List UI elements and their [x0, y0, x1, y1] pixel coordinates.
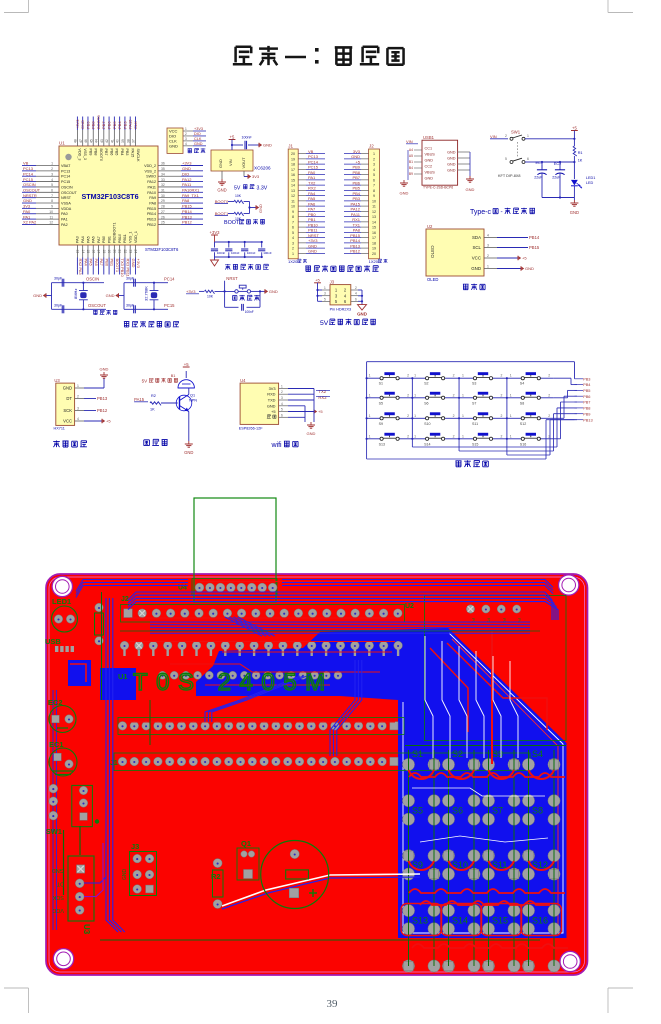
- svg-text:Type-c: Type-c: [470, 209, 492, 216]
- svg-text:S10: S10: [424, 422, 430, 426]
- svg-text:VDDA: VDDA: [61, 207, 72, 211]
- svg-text:B1: B1: [409, 160, 413, 164]
- svg-text:1: 1: [51, 162, 53, 166]
- svg-text:S12: S12: [520, 422, 526, 426]
- svg-text:1: 1: [414, 434, 416, 438]
- svg-text:5V: 5V: [234, 185, 241, 191]
- svg-text:8: 8: [292, 215, 294, 219]
- svg-text:14: 14: [291, 184, 295, 188]
- svg-text:BOOT0: BOOT0: [215, 199, 229, 204]
- svg-text:S4: S4: [532, 749, 543, 759]
- connector J1 1x20 header: [288, 144, 325, 265]
- svg-text:B9: B9: [409, 172, 413, 176]
- caption buzzer: [144, 440, 150, 446]
- svg-text:+3V3: +3V3: [75, 119, 80, 129]
- svg-text:PA12: PA12: [351, 207, 361, 212]
- svg-text:1: 1: [414, 374, 416, 378]
- svg-text:NRST: NRST: [61, 196, 72, 200]
- svg-text:1: 1: [462, 393, 464, 397]
- svg-text:14: 14: [81, 250, 85, 254]
- pcb LED1 component: [52, 597, 78, 632]
- svg-text:1K: 1K: [150, 407, 155, 411]
- svg-text:5: 5: [373, 173, 375, 177]
- svg-text:PB4: PB4: [583, 382, 591, 387]
- resistor R2 1K with PA15: [134, 394, 178, 412]
- pcb keypad green column lines: [405, 746, 566, 967]
- svg-text:S6: S6: [424, 401, 428, 405]
- svg-text:30: 30: [161, 194, 165, 198]
- svg-text:3: 3: [185, 137, 187, 141]
- svg-text:1: 1: [487, 265, 489, 269]
- svg-text:PB3: PB3: [352, 196, 360, 201]
- svg-text:USB1: USB1: [423, 135, 435, 140]
- svg-text:PB8: PB8: [352, 170, 360, 175]
- svg-text:17: 17: [97, 250, 101, 254]
- svg-text:48: 48: [74, 139, 78, 143]
- svg-text:3V3: 3V3: [353, 149, 361, 154]
- svg-text:PA15: PA15: [134, 397, 145, 402]
- svg-text:30pF: 30pF: [126, 277, 135, 281]
- svg-text:T0S 2405M: T0S 2405M: [133, 669, 334, 696]
- svg-text:PB15: PB15: [529, 245, 540, 250]
- svg-text:2: 2: [407, 414, 409, 418]
- svg-text:25: 25: [161, 221, 165, 225]
- svg-text:1: 1: [510, 374, 512, 378]
- pcb keypad switch pads grid: [402, 758, 560, 972]
- svg-text:S5: S5: [379, 401, 383, 405]
- svg-text:PA9: PA9: [149, 196, 156, 200]
- svg-text:41: 41: [110, 139, 114, 143]
- svg-text:+5: +5: [318, 409, 323, 414]
- svg-text:-: -: [501, 209, 503, 216]
- svg-text:PA1: PA1: [308, 175, 316, 180]
- svg-text:PA11: PA11: [351, 212, 361, 217]
- svg-text:PB3: PB3: [122, 121, 127, 129]
- svg-text:5: 5: [324, 297, 326, 301]
- svg-text:CLK: CLK: [133, 121, 138, 129]
- svg-text:P1: P1: [471, 618, 476, 624]
- svg-text:GND: GND: [122, 869, 128, 881]
- svg-text:+3V3: +3V3: [308, 238, 318, 243]
- svg-text:SCK: SCK: [52, 894, 64, 900]
- svg-text:VSS_1: VSS_1: [129, 232, 133, 243]
- svg-text:3.3V: 3.3V: [257, 185, 268, 191]
- svg-text:GND: GND: [33, 293, 42, 298]
- pcb blue traces along top edge: [76, 580, 553, 598]
- pcb board outline: [46, 574, 588, 975]
- svg-text:VCC: VCC: [52, 907, 64, 913]
- svg-text:J3: J3: [131, 842, 139, 851]
- svg-text:18: 18: [102, 250, 106, 254]
- svg-text:29: 29: [161, 199, 165, 203]
- svg-text:PA6: PA6: [92, 236, 96, 243]
- svg-text:20: 20: [372, 252, 376, 256]
- svg-text:GND: GND: [447, 150, 456, 154]
- svg-text:BOOT0: BOOT0: [96, 115, 101, 129]
- svg-text:+3V3: +3V3: [210, 230, 221, 235]
- svg-text:2: 2: [292, 247, 294, 251]
- svg-text:S14: S14: [452, 916, 468, 926]
- svg-text:42: 42: [105, 139, 109, 143]
- title text (appendix heading): [233, 46, 404, 65]
- svg-text:S7: S7: [472, 401, 476, 405]
- svg-text:HX711: HX711: [54, 427, 65, 431]
- svg-text:RX2: RX2: [308, 186, 317, 191]
- svg-text:BOOT: BOOT: [224, 220, 240, 226]
- svg-text:1: 1: [510, 434, 512, 438]
- svg-text:PB11: PB11: [123, 234, 127, 243]
- svg-text:PB4: PB4: [117, 121, 122, 129]
- svg-text:PB0: PB0: [308, 212, 316, 217]
- svg-text:S3: S3: [472, 382, 476, 386]
- svg-text:wifi: wifi: [271, 442, 283, 449]
- svg-text:+3V3: +3V3: [186, 289, 196, 294]
- svg-text:2: 2: [77, 395, 79, 399]
- pcb blue diagonal bundle: [205, 660, 362, 756]
- svg-text:U3: U3: [82, 924, 91, 935]
- pcb J2 pad row: [121, 596, 405, 622]
- svg-text:TX2: TX2: [308, 180, 316, 185]
- pcb pad row on pour: [159, 671, 343, 679]
- svg-text:PA9_TX1: PA9_TX1: [182, 193, 200, 198]
- svg-text:5: 5: [51, 183, 53, 187]
- svg-text:5V: 5V: [320, 320, 329, 327]
- svg-text:+5: +5: [106, 419, 111, 424]
- svg-text:GND: GND: [425, 158, 434, 162]
- svg-text:33: 33: [161, 178, 165, 182]
- svg-text:1X20: 1X20: [369, 259, 379, 264]
- svg-text:3: 3: [51, 172, 53, 176]
- svg-text:1: 1: [414, 414, 416, 418]
- pcb U2 keypad courtyard: [405, 596, 566, 741]
- svg-text:12: 12: [49, 221, 53, 225]
- svg-text:U4: U4: [240, 378, 246, 383]
- svg-text:+3V3: +3V3: [194, 127, 203, 131]
- svg-text:21: 21: [118, 250, 122, 254]
- svg-text:10: 10: [49, 210, 53, 214]
- svg-text:CLK: CLK: [194, 137, 202, 141]
- svg-text:PA1: PA1: [61, 218, 68, 222]
- svg-text:OSCIN: OSCIN: [61, 185, 73, 189]
- svg-text:7: 7: [373, 184, 375, 188]
- svg-text:VCC: VCC: [63, 419, 72, 424]
- buzzer B1 5V active: [142, 362, 195, 388]
- svg-text:PB13: PB13: [182, 214, 193, 219]
- svg-text:R1: R1: [578, 151, 583, 155]
- pcb long pad row fourth: [110, 753, 530, 771]
- svg-text:PA8: PA8: [182, 198, 190, 203]
- svg-text:NPN: NPN: [189, 399, 197, 403]
- svg-text:S9: S9: [379, 422, 383, 426]
- svg-text:PA12: PA12: [147, 180, 156, 184]
- pcb blue trace bundle left vertical: [106, 598, 125, 932]
- svg-text:2: 2: [548, 374, 550, 378]
- svg-text:GND: GND: [570, 210, 579, 215]
- svg-text:PB13: PB13: [97, 396, 108, 401]
- svg-text:GND: GND: [447, 162, 456, 166]
- svg-text:2: 2: [453, 393, 455, 397]
- svg-text:GND: GND: [169, 143, 178, 148]
- svg-text:2: 2: [505, 134, 507, 138]
- svg-text:TYPE-C-2SD-BCP6: TYPE-C-2SD-BCP6: [423, 186, 453, 190]
- svg-text:PB8: PB8: [583, 406, 590, 411]
- svg-text:PA8: PA8: [353, 228, 361, 233]
- svg-text:TXD: TXD: [268, 398, 276, 403]
- svg-text:+5: +5: [230, 134, 235, 139]
- regulator U5 XC6206 5V to 3.3V: [211, 134, 272, 192]
- svg-text:100nF: 100nF: [231, 251, 240, 255]
- svg-text:+5: +5: [572, 125, 577, 130]
- pcb capacitor EC1 footprint: [49, 740, 77, 776]
- svg-text:S6: S6: [452, 806, 463, 816]
- svg-text:16: 16: [291, 173, 295, 177]
- svg-text:PC14: PC14: [23, 171, 34, 176]
- svg-text:P4: P4: [517, 618, 522, 624]
- svg-text:2: 2: [51, 167, 53, 171]
- svg-text:NRST: NRST: [308, 233, 319, 238]
- svg-text:GND: GND: [100, 367, 109, 372]
- svg-text:A4: A4: [409, 148, 413, 152]
- svg-text:2: 2: [407, 434, 409, 438]
- svg-text:PA5: PA5: [308, 196, 316, 201]
- svg-text:2: 2: [453, 414, 455, 418]
- svg-text:9: 9: [51, 205, 53, 209]
- svg-text:SW1: SW1: [511, 130, 521, 135]
- svg-text:4: 4: [487, 234, 489, 238]
- svg-text:PB12: PB12: [147, 223, 156, 227]
- svg-text:GND: GND: [351, 154, 360, 159]
- pcb resistor R2 footprint: [211, 859, 223, 909]
- svg-text:13: 13: [372, 215, 376, 219]
- svg-text:PB12: PB12: [350, 249, 361, 254]
- svg-text:GND: GND: [466, 187, 475, 192]
- svg-text:PB0: PB0: [102, 236, 106, 243]
- svg-text:5: 5: [505, 157, 507, 161]
- matrix keyboard 4x4 keys S1-S16: [367, 372, 554, 446]
- svg-text:8: 8: [51, 199, 53, 203]
- svg-text:1: 1: [369, 414, 371, 418]
- svg-text:PA7: PA7: [308, 207, 316, 212]
- svg-text:CC2: CC2: [425, 164, 433, 168]
- capacitors C filter bank for chip: [210, 230, 272, 270]
- svg-text:2: 2: [501, 414, 503, 418]
- pcb USB connector area: [45, 637, 91, 686]
- svg-text:S2: S2: [424, 382, 428, 386]
- svg-text:8: 8: [373, 189, 375, 193]
- svg-text:6: 6: [355, 297, 357, 301]
- svg-text:17: 17: [372, 236, 376, 240]
- svg-text:PB9: PB9: [583, 411, 590, 416]
- svg-text:39: 39: [327, 998, 339, 1010]
- pcb transistor Q1 footprint: [237, 839, 259, 880]
- svg-text:100nF: 100nF: [263, 251, 272, 255]
- svg-text:3V3: 3V3: [23, 204, 31, 209]
- svg-text:6: 6: [51, 189, 53, 193]
- svg-text:GND: GND: [63, 386, 72, 391]
- svg-text:S4: S4: [520, 382, 524, 386]
- crystal Y2 32.768K circuit: [106, 277, 176, 314]
- svg-text:18: 18: [372, 241, 376, 245]
- svg-text:S11: S11: [472, 422, 478, 426]
- resistor R1 1K: [571, 125, 583, 179]
- pcb buzzer footprint: [261, 841, 329, 909]
- svg-text:3: 3: [77, 407, 79, 411]
- pcb mounting holes: [52, 575, 580, 972]
- svg-text:NRSTR: NRSTR: [23, 193, 37, 198]
- svg-text:VSSA: VSSA: [61, 202, 71, 206]
- svg-text:PA15: PA15: [131, 149, 135, 158]
- svg-text:1: 1: [510, 414, 512, 418]
- svg-text:GND: GND: [425, 176, 434, 180]
- svg-text:28: 28: [161, 205, 165, 209]
- svg-text:U1: U1: [118, 672, 128, 681]
- svg-text:1: 1: [292, 252, 294, 256]
- svg-text:3V3: 3V3: [252, 174, 260, 179]
- svg-text:S13: S13: [412, 916, 428, 926]
- svg-text:VBUS: VBUS: [425, 170, 436, 174]
- svg-text:LED: LED: [586, 181, 594, 185]
- svg-text:A5: A5: [409, 154, 413, 158]
- svg-text:2: 2: [407, 374, 409, 378]
- svg-text:GND: GND: [217, 188, 226, 193]
- svg-text:BOOT1: BOOT1: [215, 211, 229, 216]
- svg-text:PA5: PA5: [86, 236, 90, 243]
- svg-text:27: 27: [161, 210, 165, 214]
- svg-text:2: 2: [373, 157, 375, 161]
- svg-text:2: 2: [453, 434, 455, 438]
- svg-text:4: 4: [292, 236, 294, 240]
- svg-text:43: 43: [100, 139, 104, 143]
- svg-text:PB5: PB5: [112, 121, 117, 129]
- svg-text:Q1: Q1: [190, 394, 195, 398]
- svg-text:22uF: 22uF: [552, 176, 561, 180]
- svg-text:3: 3: [487, 244, 489, 248]
- svg-text:PB9: PB9: [352, 165, 360, 170]
- svg-text:PC14: PC14: [164, 277, 175, 282]
- svg-text:DIO: DIO: [182, 171, 189, 176]
- svg-text:PB13: PB13: [147, 218, 156, 222]
- svg-text:S1: S1: [412, 749, 423, 759]
- svg-text:J2: J2: [369, 144, 374, 149]
- svg-text:5: 5: [292, 231, 294, 235]
- pcb white traces in pour: [412, 636, 548, 842]
- svg-text:19: 19: [291, 157, 295, 161]
- svg-text:PC15: PC15: [164, 303, 175, 308]
- svg-text:B4: B4: [409, 166, 413, 170]
- svg-text:PB2/BOOT1: PB2/BOOT1: [113, 223, 117, 244]
- svg-text:SDA: SDA: [472, 235, 481, 240]
- svg-text:J1: J1: [288, 144, 293, 149]
- svg-text:PB6: PB6: [109, 149, 113, 156]
- svg-text:PB7: PB7: [352, 175, 360, 180]
- svg-text:PB14: PB14: [529, 235, 540, 240]
- svg-text:35: 35: [161, 167, 165, 171]
- svg-text:VDD_2: VDD_2: [144, 164, 156, 168]
- svg-text:VIN: VIN: [490, 134, 497, 139]
- pcb green traces left: [64, 592, 541, 940]
- svg-text:2: 2: [501, 434, 503, 438]
- svg-text:PA8: PA8: [149, 202, 156, 206]
- svg-text:1: 1: [369, 434, 371, 438]
- svg-text:+3V3: +3V3: [182, 161, 192, 166]
- svg-text:GND: GND: [182, 166, 191, 171]
- svg-text:U2: U2: [427, 224, 433, 229]
- pcb keypad silkscreen labels: [412, 749, 548, 926]
- svg-text:13: 13: [291, 189, 295, 193]
- svg-text:RX2: RX2: [318, 395, 327, 400]
- svg-text:3: 3: [292, 241, 294, 245]
- svg-text:2: 2: [407, 393, 409, 397]
- svg-text:P2: P2: [486, 618, 491, 624]
- svg-text:GND: GND: [23, 198, 32, 203]
- svg-text:PB7: PB7: [101, 121, 106, 129]
- display U2 OLED: [426, 224, 540, 290]
- svg-text:TX2: TX2: [318, 389, 326, 394]
- svg-text:30pF: 30pF: [54, 277, 63, 281]
- svg-text:PA12: PA12: [182, 177, 192, 182]
- svg-text:+3V3: +3V3: [136, 259, 141, 269]
- svg-text:22uF: 22uF: [534, 176, 543, 180]
- svg-text:LED1: LED1: [586, 176, 596, 180]
- pcb copper pour blue main region: [100, 628, 567, 938]
- svg-text:GND: GND: [267, 403, 276, 408]
- pcb silkscreen big text: [118, 669, 334, 696]
- svg-text:VIN: VIN: [228, 159, 233, 166]
- svg-text:GND: GND: [218, 159, 223, 168]
- svg-text:GND: GND: [106, 293, 115, 298]
- svg-text:13: 13: [76, 250, 80, 254]
- svg-text:15: 15: [372, 226, 376, 230]
- svg-text:LED1: LED1: [52, 597, 71, 606]
- svg-text:GND: GND: [269, 289, 278, 294]
- svg-text:PA0: PA0: [61, 212, 68, 216]
- svg-text:PB1: PB1: [308, 217, 316, 222]
- svg-text:GND: GND: [357, 312, 367, 317]
- svg-text:15: 15: [291, 178, 295, 182]
- svg-text:GND: GND: [308, 243, 317, 248]
- svg-text:OSCOUT: OSCOUT: [88, 303, 106, 308]
- svg-text:RX1: RX1: [352, 217, 361, 222]
- switch SW1 KFT DIP-8X8: [490, 130, 574, 179]
- svg-text:2: 2: [501, 393, 503, 397]
- svg-text:VDD_1: VDD_1: [134, 231, 138, 243]
- svg-text:5: 5: [281, 408, 283, 412]
- svg-text:11: 11: [291, 199, 295, 203]
- pcb module U3 HX711 footprint bottom left: [52, 819, 128, 934]
- svg-text:GND: GND: [471, 266, 481, 271]
- svg-text:2: 2: [281, 390, 283, 394]
- svg-text:4: 4: [77, 417, 79, 421]
- svg-text:10: 10: [291, 205, 295, 209]
- svg-text:VBAT: VBAT: [61, 164, 71, 168]
- svg-text:7: 7: [51, 194, 53, 198]
- svg-text:22: 22: [123, 250, 127, 254]
- capacitor EC1 22uF: [534, 161, 574, 198]
- svg-text:OSCOUT: OSCOUT: [23, 188, 41, 193]
- pcb U4 pad row top: [178, 579, 277, 596]
- svg-text:PB13: PB13: [583, 417, 593, 422]
- svg-text:VDD_3: VDD_3: [78, 149, 82, 161]
- svg-text:37: 37: [132, 139, 136, 143]
- svg-text:STM32F103C8T6: STM32F103C8T6: [81, 192, 138, 201]
- svg-text:PC15: PC15: [23, 177, 34, 182]
- svg-text:VSS_2: VSS_2: [145, 169, 156, 173]
- svg-text:OSCIN: OSCIN: [23, 182, 36, 187]
- caption 5V backup power: [320, 319, 376, 327]
- svg-text:U2: U2: [405, 603, 414, 610]
- svg-text:39: 39: [121, 139, 125, 143]
- ground of buzzer: [184, 441, 193, 455]
